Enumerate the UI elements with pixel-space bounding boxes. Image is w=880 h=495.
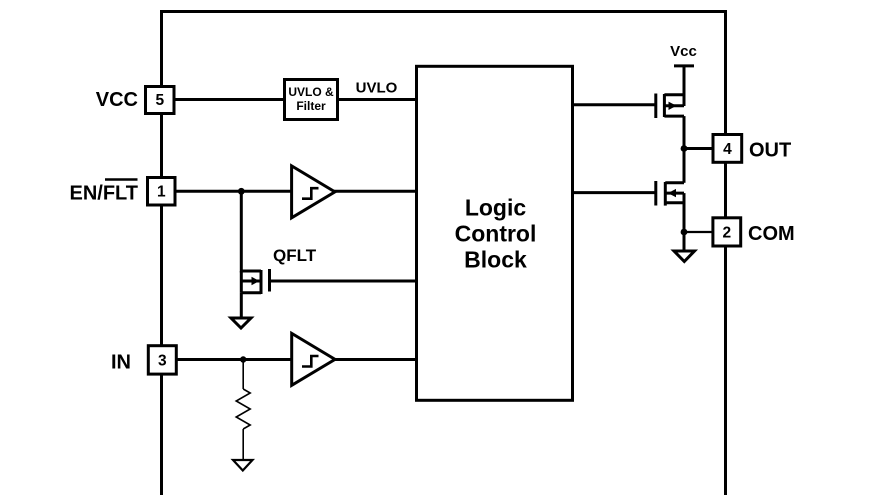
- svg-text:EN/FLT: EN/FLT: [69, 183, 138, 205]
- wire node OUT to OUT pin: [684, 147, 713, 150]
- wire node COM to COM pin: [684, 231, 713, 233]
- svg-text:Vcc: Vcc: [670, 43, 697, 60]
- label QFLT: [273, 246, 317, 265]
- wire node EN down to QFLT drain: [240, 191, 243, 272]
- resistor pulldown on IN: [236, 389, 250, 429]
- svg-text:4: 4: [723, 141, 732, 158]
- pin 3 IN pin box: [148, 346, 176, 374]
- svg-text:3: 3: [158, 353, 167, 370]
- svg-text:IN: IN: [111, 352, 131, 374]
- wire schmitt buffer output to logic block: [334, 190, 417, 193]
- wire EN/FLT pin to schmitt buffer: [161, 190, 293, 193]
- svg-text:QFLT: QFLT: [273, 246, 317, 265]
- pin 1 EN/FLT pin box: [148, 178, 176, 206]
- svg-text:UVLO: UVLO: [356, 80, 398, 97]
- ground below COM node: [674, 251, 695, 262]
- svg-text:UVLO &: UVLO &: [288, 85, 334, 99]
- svg-text:VCC: VCC: [96, 89, 138, 111]
- wire IN pin to schmitt buffer: [161, 358, 293, 361]
- pin 2 COM pin box: [713, 218, 741, 246]
- wire logic block to low-side gate: [571, 191, 656, 194]
- op-amp U2 schmitt trigger buffer IN: [292, 333, 335, 385]
- wire resistor to ground: [242, 429, 244, 459]
- node OUT junction dot: [681, 145, 688, 152]
- block UVLO and Filter: [285, 80, 338, 120]
- wire node OUT down to low-side drain: [683, 149, 686, 183]
- wire IN node to pulldown resistor: [242, 360, 244, 390]
- op-amp U1 schmitt trigger buffer EN: [292, 166, 335, 218]
- svg-text:2: 2: [722, 225, 731, 242]
- svg-text:5: 5: [155, 92, 164, 109]
- IC boundary: [162, 12, 726, 495]
- transistor Q2 low-side N-channel MOSFET: [656, 181, 684, 206]
- label OUT: [749, 140, 791, 162]
- Vcc supply bar: [674, 64, 694, 67]
- label Vcc supply: [670, 43, 697, 60]
- svg-text:1: 1: [157, 184, 166, 201]
- wire UVLO filter to logic block: [338, 98, 418, 101]
- wire high-side drain to node OUT: [683, 116, 686, 148]
- wire low-side source to node COM: [683, 193, 686, 232]
- wire Vcc rail to high-side source: [683, 66, 686, 106]
- svg-text:Block: Block: [464, 246, 527, 272]
- label VCC: [96, 89, 138, 111]
- transistor Q1 high-side P-channel MOSFET: [656, 94, 684, 119]
- node COM junction dot: [681, 229, 688, 236]
- wire logic block to high-side gate: [571, 103, 656, 106]
- wire schmitt buffer 2 output to logic block: [334, 358, 417, 361]
- wire VCC pin to UVLO filter: [161, 98, 285, 101]
- svg-text:Control: Control: [455, 220, 537, 246]
- wire node COM down to ground: [683, 232, 686, 251]
- wire QFLT source to ground: [240, 293, 243, 318]
- label COM: [748, 223, 795, 245]
- transistor QFLT N-channel MOSFET: [241, 269, 269, 294]
- node EN junction dot: [238, 188, 245, 195]
- svg-text:OUT: OUT: [749, 140, 791, 162]
- svg-text:COM: COM: [748, 223, 795, 245]
- label UVLO net: [356, 80, 398, 97]
- pin 5 VCC pin box: [146, 87, 175, 114]
- label EN/FLT with overline on FLT: [69, 180, 138, 205]
- label IN: [111, 352, 131, 374]
- wire QFLT gate to logic block: [270, 280, 418, 283]
- ground below QFLT: [231, 318, 251, 328]
- pin 4 OUT pin box: [713, 135, 742, 163]
- node IN junction dot: [240, 356, 246, 362]
- ground below resistor: [233, 460, 253, 471]
- svg-text:Filter: Filter: [296, 99, 326, 113]
- block Logic Control Block: [417, 66, 573, 400]
- svg-text:Logic: Logic: [465, 195, 527, 221]
